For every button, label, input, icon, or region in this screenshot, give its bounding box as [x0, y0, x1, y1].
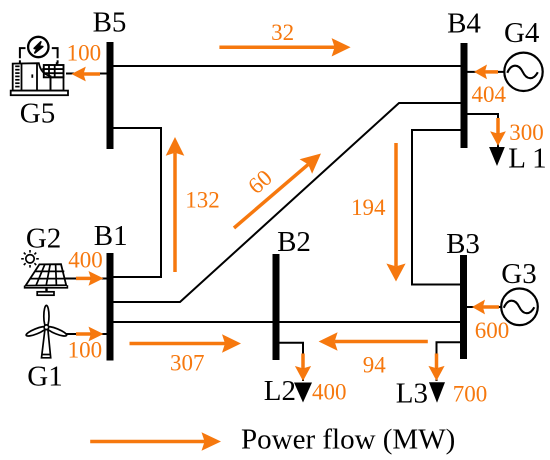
bus B3 [460, 255, 467, 359]
load L3 arrow symbol [429, 382, 445, 402]
bus B5 [107, 42, 114, 149]
load L2 arrow symbol [294, 383, 312, 403]
power flow arrow 100 from G1 into B1 [76, 327, 104, 342]
wire B2 to load L2 [276, 343, 303, 381]
svg-text:G3: G3 [501, 258, 536, 290]
svg-text:400: 400 [68, 248, 103, 273]
power flow arrow 700 into L3 [428, 354, 444, 381]
svg-text:L3: L3 [396, 378, 428, 410]
svg-text:700: 700 [453, 382, 488, 407]
wire G1 to B1 [60, 333, 110, 335]
svg-text:G2: G2 [26, 223, 61, 255]
bus B1 [107, 253, 114, 361]
svg-text:L2: L2 [264, 375, 296, 407]
svg-text:94: 94 [363, 353, 387, 378]
wire G2 to B1 [64, 278, 110, 280]
svg-text:300: 300 [509, 120, 544, 145]
svg-text:32: 32 [271, 20, 294, 45]
wire B4 to load L1 [464, 114, 498, 147]
svg-text:132: 132 [185, 188, 220, 213]
svg-text:G1: G1 [27, 361, 62, 393]
generator G2 symbol (solar panel icon) [21, 250, 67, 295]
svg-text:404: 404 [471, 82, 506, 107]
generator G5 symbol (diesel genset icon) [11, 37, 68, 95]
wire B1-B2-B3 bottom line [110, 321, 463, 323]
wire B5-B4 top line [110, 65, 464, 67]
wire B1-B4 diagonal [110, 103, 464, 302]
power flow arrow 307 (B1 to B2) [130, 334, 242, 352]
bus B2 [273, 254, 280, 360]
power flow arrow 300 into L1 [490, 118, 506, 146]
power flow arrow 404 from G4 [474, 65, 498, 80]
power flow arrow 400 into L2 [295, 354, 311, 382]
svg-text:B5: B5 [93, 7, 127, 39]
svg-text:B4: B4 [447, 8, 481, 40]
svg-text:Power flow (MW): Power flow (MW) [241, 424, 455, 456]
svg-text:100: 100 [67, 40, 102, 65]
wire G3 to B3 [463, 306, 502, 308]
generator G4 symbol (circle with sine wave) [504, 53, 542, 91]
power flow arrow 100 into G5 [71, 67, 100, 82]
power flow arrow 600 from G3 [472, 300, 499, 315]
power flow arrow 94 (B3 to B2) [319, 332, 428, 350]
wire B4-B3 (via corner x=412) [412, 130, 464, 285]
svg-text:400: 400 [312, 380, 347, 405]
power flow arrow 132 (B1 to B5) [166, 137, 185, 272]
wire B5-B1 (via corner x=161) [110, 128, 161, 277]
svg-text:G5: G5 [20, 98, 55, 130]
svg-text:194: 194 [351, 195, 386, 220]
bus B4 [461, 43, 468, 148]
wire B5 to G5 stub [66, 73, 110, 75]
generator G3 symbol (circle with sine wave) [501, 289, 538, 326]
wire G4 to B4 [464, 71, 506, 73]
svg-text:100: 100 [68, 338, 103, 363]
svg-text:307: 307 [170, 351, 205, 376]
svg-text:B3: B3 [446, 228, 480, 260]
svg-text:600: 600 [475, 318, 510, 343]
legend power flow arrow [90, 432, 221, 451]
svg-text:B2: B2 [277, 226, 311, 258]
power flow arrow 60 (diagonal B1 to B4) [234, 154, 321, 229]
power flow arrow 32 (B5 to B4) [219, 38, 350, 56]
generator G1 symbol (wind turbine icon) [25, 305, 67, 357]
wire B3 to load L3 [437, 342, 464, 381]
svg-text:L 1: L 1 [508, 143, 546, 175]
load L1 arrow symbol [489, 147, 505, 166]
power flow arrow 400 from G2 into B1 [76, 271, 104, 286]
power flow arrow 194 (B4 to B3) [386, 143, 405, 282]
svg-text:G4: G4 [504, 17, 540, 49]
